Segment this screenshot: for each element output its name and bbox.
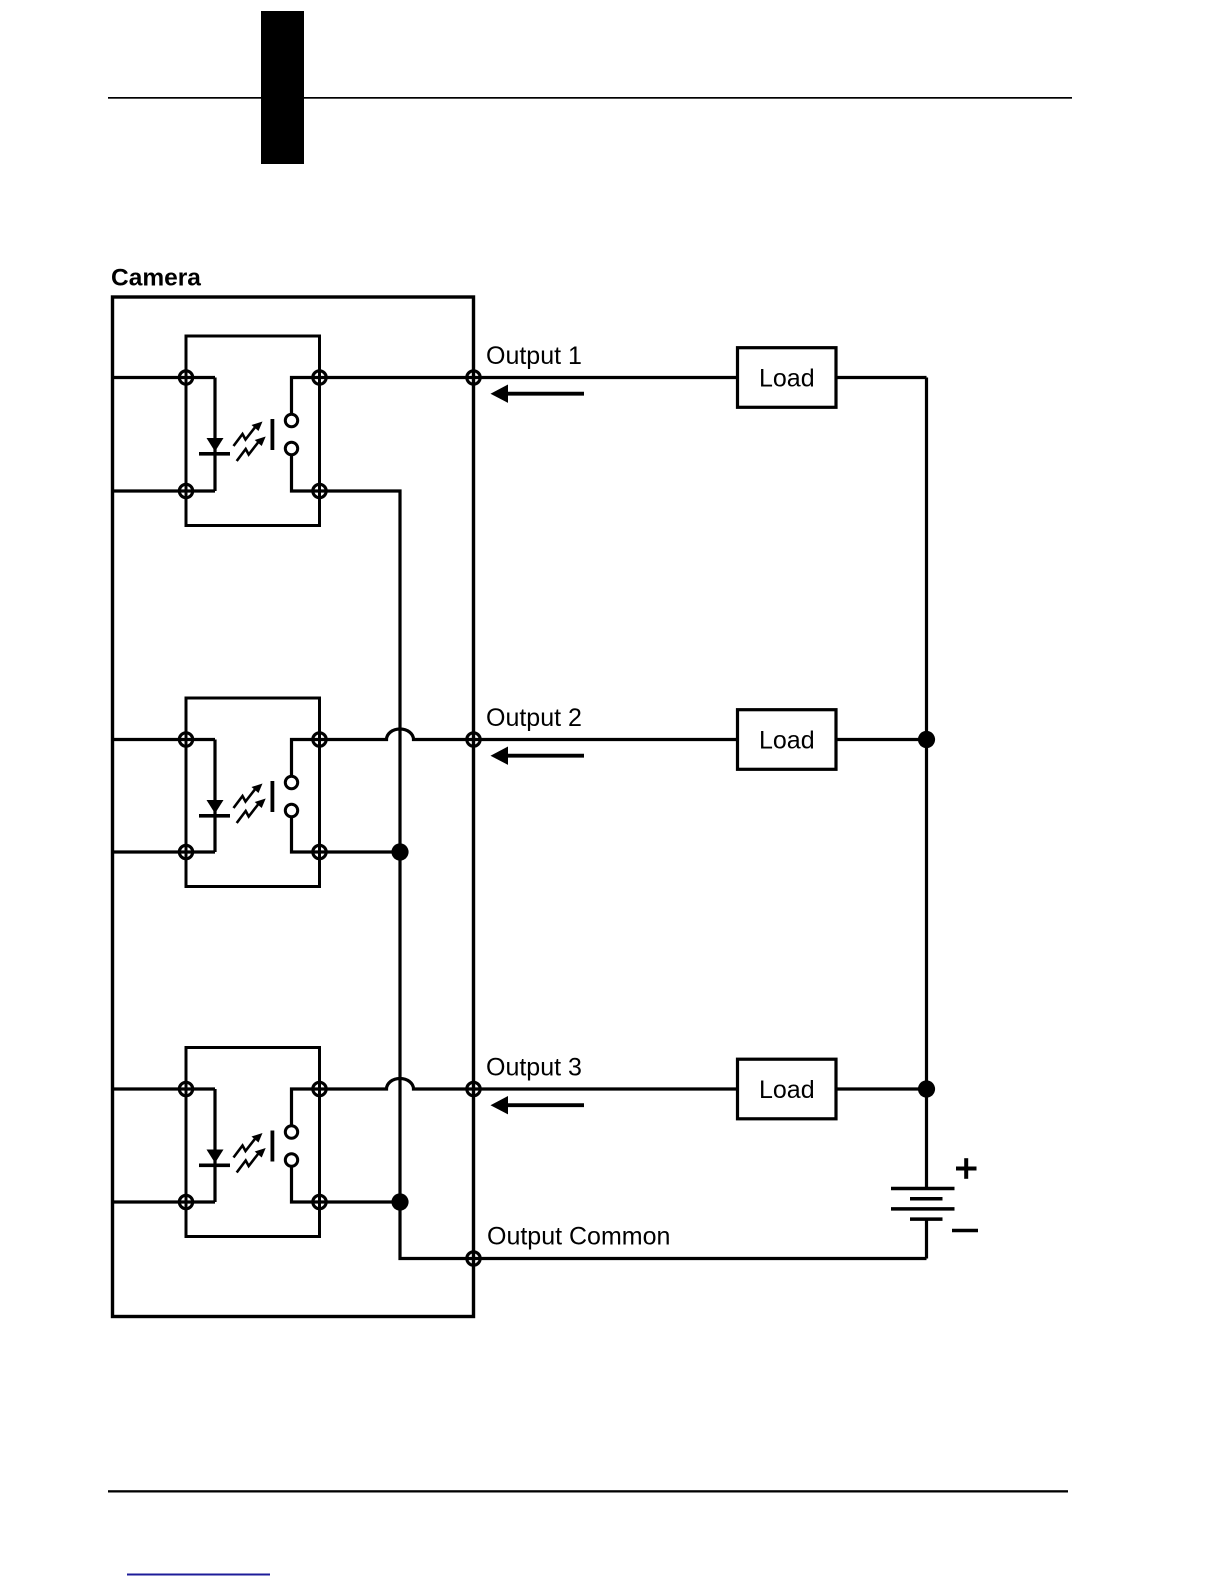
wire L3 to supply bus	[836, 1087, 927, 1090]
svg-text:Output Common: Output Common	[487, 1223, 670, 1251]
terminal Output Common	[467, 1252, 480, 1265]
PC2 photodetector bar	[271, 781, 275, 812]
current direction arrow for Output 1	[504, 392, 584, 396]
wire PC1 LED branch	[213, 378, 216, 492]
wire Output 1 line	[320, 376, 738, 379]
junction dot supply/L3	[918, 1080, 935, 1097]
PC3 photodetector bar	[271, 1131, 275, 1162]
svg-text:Load: Load	[759, 1076, 815, 1104]
wire Output 2 line with hop over bus	[320, 729, 738, 740]
terminal Output 1	[467, 371, 480, 384]
current direction arrow for Output 2	[504, 754, 584, 758]
wire PC3 contact to bus	[320, 1200, 401, 1203]
svg-text:Output 1: Output 1	[486, 342, 582, 370]
wire PC2 cathode input	[113, 850, 216, 853]
PC1 light emission arrows	[234, 426, 260, 461]
LED of PC1	[207, 438, 224, 452]
svg-text:Output 2: Output 2	[486, 704, 582, 732]
svg-text:Output 3: Output 3	[486, 1054, 582, 1082]
wire PC3 LED branch	[213, 1089, 216, 1202]
junction dot bus/PC3	[391, 1193, 408, 1210]
wire PC3 output contacts	[292, 1089, 320, 1202]
wire PC1 cathode input	[113, 489, 216, 492]
wire L1 to supply bus	[836, 376, 927, 379]
junction dot supply/L2	[918, 731, 935, 748]
load box L2	[738, 710, 837, 770]
LED of PC3	[207, 1150, 224, 1164]
wire Output Common to battery	[474, 1219, 927, 1258]
PC3 light emission arrows	[234, 1138, 260, 1173]
junction dot bus/PC2	[391, 843, 408, 860]
wire L2 to supply bus	[836, 738, 927, 741]
terminal Output 3	[467, 1082, 480, 1095]
terminal Output 2	[467, 733, 480, 746]
wire PC2 output contacts	[292, 740, 320, 853]
load box L1	[738, 348, 837, 408]
camera enclosure box	[113, 297, 474, 1317]
wire PC2 anode input	[113, 738, 216, 741]
svg-text:Load: Load	[759, 727, 815, 755]
wire PC2 contact to bus	[320, 850, 401, 853]
wire PC1 anode input	[113, 376, 216, 379]
battery negative label	[952, 1229, 978, 1233]
PC2 light emission arrows	[234, 788, 260, 823]
wire Output 3 line with hop over bus	[320, 1079, 738, 1090]
battery positive label	[956, 1158, 977, 1179]
optocoupler PC1 box	[186, 336, 320, 526]
wire PC1 output contacts	[292, 378, 320, 492]
wire PC2 LED branch	[213, 740, 216, 853]
PC1 photodetector bar	[271, 419, 275, 450]
optocoupler PC3 box	[186, 1048, 320, 1237]
pin terminals of PC2	[179, 733, 192, 746]
LED of PC2	[207, 800, 224, 814]
pin terminals of PC1	[179, 371, 192, 384]
svg-text:Load: Load	[759, 365, 815, 393]
PC1 contact points	[285, 414, 297, 426]
svg-text:Camera: Camera	[111, 265, 201, 292]
wire supply bus	[925, 378, 928, 1189]
wire PC3 anode input	[113, 1087, 216, 1090]
pin terminals of PC3	[179, 1082, 192, 1095]
PC2 contact points	[285, 776, 297, 788]
current direction arrow for Output 3	[504, 1103, 584, 1107]
PC3 contact points	[285, 1126, 297, 1138]
load box L3	[738, 1059, 837, 1119]
battery BT1	[891, 1189, 955, 1220]
optocoupler PC2 box	[186, 698, 320, 887]
wire PC3 cathode input	[113, 1200, 216, 1203]
wire internal output common bus	[320, 491, 474, 1259]
